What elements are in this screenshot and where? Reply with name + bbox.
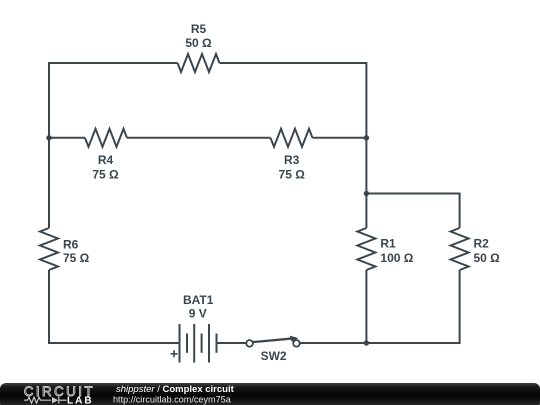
switch SW2 lever bbox=[253, 338, 296, 342]
node middle-right junction bbox=[364, 135, 369, 140]
svg-text:http://circuitlab.com/ceym75a: http://circuitlab.com/ceym75a bbox=[113, 395, 232, 405]
svg-text:BAT1: BAT1 bbox=[183, 293, 214, 307]
svg-text:R4: R4 bbox=[98, 153, 114, 167]
wire bottom-left to battery bbox=[49, 342, 180, 344]
svg-text:75 Ω: 75 Ω bbox=[92, 168, 119, 182]
wire R2 branch right vertical upper bbox=[459, 193, 461, 229]
wire right vertical upper segment bbox=[365, 62, 367, 228]
svg-text:R1: R1 bbox=[380, 237, 396, 251]
resistor R2 bbox=[451, 228, 469, 270]
svg-text:50 Ω: 50 Ω bbox=[474, 251, 501, 265]
switch SW2 terminals bbox=[246, 340, 300, 347]
svg-text:50 Ω: 50 Ω bbox=[185, 36, 212, 50]
node middle-left junction bbox=[46, 135, 51, 140]
svg-text:shippster / Complex circuit: shippster / Complex circuit bbox=[116, 384, 235, 395]
footer bar bbox=[0, 383, 540, 405]
resistor R6 bbox=[40, 228, 58, 270]
wire R4 to R3 bbox=[127, 137, 271, 139]
wire left vertical lower segment bbox=[48, 270, 50, 344]
svg-text:100 Ω: 100 Ω bbox=[380, 251, 413, 265]
wire right vertical lower segment bbox=[365, 270, 367, 344]
svg-text:75 Ω: 75 Ω bbox=[279, 168, 306, 182]
wire top-left to R5 bbox=[49, 62, 178, 64]
wire R5 to top-right corner bbox=[220, 62, 367, 64]
battery BAT1 plates bbox=[180, 324, 217, 363]
svg-text:SW2: SW2 bbox=[261, 349, 287, 363]
switch SW2 lever arrowhead bbox=[290, 336, 298, 342]
wire R2 branch right vertical lower bbox=[459, 270, 461, 344]
resistor R4 bbox=[85, 129, 127, 147]
svg-text:LAB: LAB bbox=[67, 395, 94, 405]
resistor R5 bbox=[178, 54, 220, 72]
resistor R3 bbox=[271, 129, 313, 147]
svg-text:75 Ω: 75 Ω bbox=[63, 251, 90, 265]
svg-text:R2: R2 bbox=[474, 237, 490, 251]
logo resistor-diode wire bbox=[24, 397, 67, 404]
wire left vertical upper segment bbox=[48, 62, 50, 228]
resistor R1 bbox=[357, 228, 375, 270]
svg-text:R6: R6 bbox=[63, 237, 79, 251]
svg-text:R5: R5 bbox=[191, 22, 207, 36]
logo diode triangle bbox=[52, 397, 58, 403]
wire node to R2 branch top bbox=[366, 193, 459, 195]
node R2 branch junction bbox=[364, 191, 369, 196]
node bottom junction bbox=[364, 340, 369, 345]
wire battery to switch bbox=[217, 342, 246, 344]
wire middle left node to R4 bbox=[49, 137, 85, 139]
battery plus sign bbox=[171, 350, 178, 357]
wire switch to bottom node and R2 bbox=[300, 342, 460, 344]
wire R3 to right vertical bbox=[313, 137, 367, 139]
svg-text:9 V: 9 V bbox=[189, 306, 207, 320]
svg-text:R3: R3 bbox=[284, 153, 300, 167]
